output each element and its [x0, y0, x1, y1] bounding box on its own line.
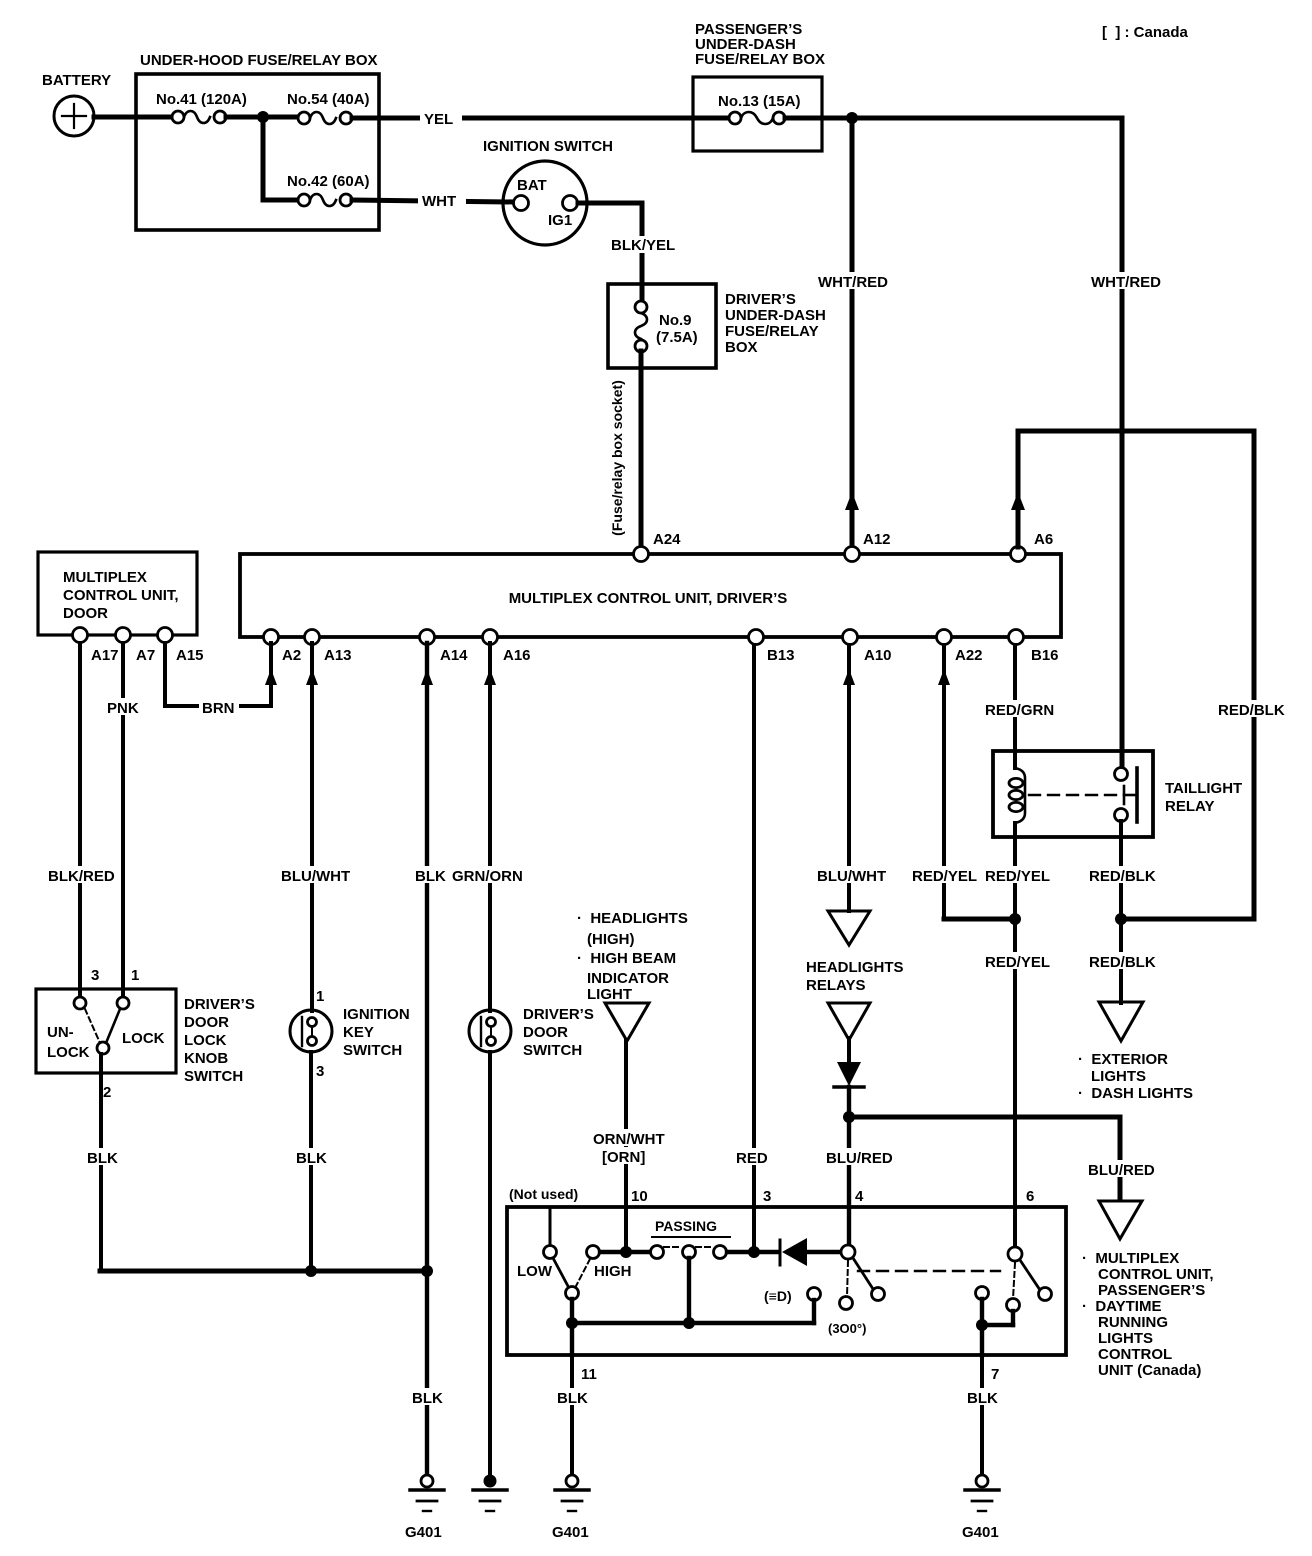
under-hood fuse/relay box — [136, 52, 379, 230]
svg-text:BRN: BRN — [202, 700, 235, 717]
svg-text:(Fuse/relay box socket): (Fuse/relay box socket) — [609, 380, 625, 536]
svg-text:3: 3 — [316, 1063, 324, 1080]
svg-text:4: 4 — [855, 1188, 864, 1205]
pin A15 — [158, 628, 204, 665]
wire BLU/RED to arrow — [1085, 1117, 1155, 1199]
taillight relay — [993, 751, 1242, 837]
wire A7 PNK — [104, 643, 142, 998]
headlight switch box — [507, 1186, 1066, 1355]
junction node pin 10 — [620, 1246, 632, 1258]
wire lock switch pin 2 BLK down — [84, 1054, 118, 1271]
svg-text:SWITCH: SWITCH — [184, 1068, 243, 1085]
driver's door lock knob switch — [36, 967, 255, 1101]
svg-text:[ ] : Canada: [ ] : Canada — [1102, 24, 1188, 41]
svg-text:A17: A17 — [91, 647, 119, 664]
svg-text:IG1: IG1 — [548, 212, 572, 229]
svg-text:ORN/WHT: ORN/WHT — [593, 1131, 665, 1148]
passing contacts — [600, 1218, 778, 1259]
svg-text:BAT: BAT — [517, 177, 547, 194]
svg-text:DOOR: DOOR — [523, 1024, 568, 1041]
dashed linkage — [858, 1270, 1000, 1272]
svg-text:A14: A14 — [440, 647, 468, 664]
junction node — [846, 112, 858, 124]
svg-text:3: 3 — [91, 967, 99, 984]
junction node in under-hood box — [257, 111, 269, 123]
junction node — [843, 1111, 855, 1123]
svg-text:LOCK: LOCK — [47, 1044, 90, 1061]
dimmer arm pin 4 — [828, 1245, 885, 1336]
svg-text:11: 11 — [581, 1366, 597, 1383]
svg-text:RED: RED — [736, 1150, 768, 1167]
svg-text:BLU/RED: BLU/RED — [826, 1150, 893, 1167]
wire pin 7 bus — [976, 1299, 1013, 1355]
svg-text:B13: B13 — [767, 647, 795, 664]
svg-text:RELAY: RELAY — [1165, 798, 1214, 815]
svg-text:A13: A13 — [324, 647, 352, 664]
ground G401 (A14/key/lock) — [405, 1475, 444, 1541]
wire pin 7 BLK to ground — [964, 1355, 1000, 1476]
pin A6 — [1011, 531, 1054, 562]
ignition key switch — [290, 988, 410, 1080]
svg-text:A6: A6 — [1034, 531, 1053, 548]
wire BLU/RED branch right — [849, 1115, 1120, 1120]
svg-text:RED/GRN: RED/GRN — [985, 702, 1054, 719]
svg-text:· HIGH BEAM: · HIGH BEAM — [577, 950, 676, 967]
pin A2 — [264, 630, 302, 665]
wire junction down to fuse No.42 — [261, 117, 266, 200]
svg-text:LIGHT: LIGHT — [587, 986, 632, 1003]
wire A15 BRN to A2 — [165, 643, 277, 717]
not used stub contact — [544, 1207, 557, 1259]
svg-text:LOCK: LOCK — [184, 1032, 227, 1049]
svg-text:(Not used): (Not used) — [509, 1186, 578, 1202]
svg-text:10: 10 — [631, 1188, 648, 1205]
wire A17 BLK/RED to door lock knob switch — [45, 643, 115, 998]
headlights high / high beam indicator note — [577, 910, 688, 1003]
arrow from headlights high — [605, 1003, 649, 1041]
svg-text:BLK: BLK — [87, 1150, 118, 1167]
svg-text:CONTROL: CONTROL — [1098, 1346, 1172, 1363]
ground (door switch, solid) — [473, 1475, 507, 1512]
arrow to multiplex control unit passenger's — [1082, 1201, 1214, 1379]
wire key switch BLK down — [293, 1052, 330, 1271]
svg-text:PNK: PNK — [107, 700, 139, 717]
junction node pin 3 — [748, 1246, 760, 1258]
svg-text:RED/BLK: RED/BLK — [1089, 868, 1156, 885]
wire IG1 BLK/YEL down to driver's under-dash fuse box — [578, 203, 676, 302]
svg-text:A2: A2 — [282, 647, 301, 664]
svg-text:(≡D): (≡D) — [764, 1288, 792, 1304]
svg-text:HEADLIGHTS: HEADLIGHTS — [806, 959, 904, 976]
wire B16 RED/GRN to taillight relay coil — [982, 645, 1054, 768]
svg-text:7: 7 — [991, 1366, 999, 1383]
svg-text:LIGHTS: LIGHTS — [1098, 1330, 1153, 1347]
battery — [42, 72, 111, 136]
svg-text:SWITCH: SWITCH — [343, 1042, 402, 1059]
svg-text:G401: G401 — [405, 1524, 442, 1541]
svg-text:RED/YEL: RED/YEL — [985, 954, 1050, 971]
svg-text:No.41 (120A): No.41 (120A) — [156, 91, 247, 108]
wire fuse/relay box socket down to A24 — [609, 351, 641, 547]
wire battery to under-hood box — [94, 115, 172, 120]
diode — [834, 1038, 864, 1087]
junction node — [305, 1265, 317, 1277]
svg-text:G401: G401 — [552, 1524, 589, 1541]
svg-text:RED/BLK: RED/BLK — [1089, 954, 1156, 971]
fuse No.42 (60A) — [287, 173, 370, 206]
svg-text:3: 3 — [763, 1188, 771, 1205]
wire relay contact RED/BLK down — [1086, 821, 1156, 1003]
junction node — [1115, 913, 1127, 925]
wire relay coil RED/YEL down to switch pin 6 — [982, 823, 1052, 1248]
svg-text:1: 1 — [316, 988, 324, 1005]
svg-text:UNDER-HOOD FUSE/RELAY BOX: UNDER-HOOD FUSE/RELAY BOX — [140, 52, 378, 69]
ground G401 (headlight switch 7) — [962, 1475, 999, 1541]
junction node — [1009, 913, 1021, 925]
pin B16 — [1009, 630, 1059, 665]
pin A22 — [937, 630, 983, 665]
svg-text:BLK: BLK — [415, 868, 446, 885]
svg-text:LOW: LOW — [517, 1263, 553, 1280]
wire door switch to ground — [488, 1052, 492, 1476]
svg-text:DRIVER’S: DRIVER’S — [725, 291, 796, 308]
svg-text:WHT/RED: WHT/RED — [1091, 274, 1161, 291]
arrow to headlights relays — [806, 911, 904, 994]
svg-text:(7.5A): (7.5A) — [656, 329, 698, 346]
wire A16 GRN/ORN to driver's door switch — [449, 643, 529, 1011]
pin B13 — [749, 630, 795, 665]
wire WHT/RED down to taillight relay — [1088, 118, 1161, 768]
svg-text:[ORN]: [ORN] — [602, 1149, 645, 1166]
svg-text:UN-: UN- — [47, 1024, 74, 1041]
svg-text:PASSENGER’S: PASSENGER’S — [1098, 1282, 1205, 1299]
svg-text:CONTROL UNIT,: CONTROL UNIT, — [63, 587, 179, 604]
svg-text:BOX: BOX — [725, 339, 758, 356]
fuse No.9 (7.5A) — [635, 301, 698, 352]
wire A13 BLU/WHT to ignition key switch — [278, 643, 350, 1011]
svg-text:No.13 (15A): No.13 (15A) — [718, 93, 801, 110]
passenger's under-dash fuse/relay box — [693, 21, 825, 151]
svg-text:A16: A16 — [503, 647, 531, 664]
svg-text:BLK/YEL: BLK/YEL — [611, 237, 675, 254]
svg-text:FUSE/RELAY BOX: FUSE/RELAY BOX — [695, 51, 825, 68]
wire WHT/RED main run right — [785, 116, 1122, 121]
driver's door switch — [469, 1006, 594, 1059]
svg-text:FUSE/RELAY: FUSE/RELAY — [725, 323, 819, 340]
multiplex control unit, door box — [38, 552, 197, 635]
svg-text:DRIVER’S: DRIVER’S — [523, 1006, 594, 1023]
multiplex control unit, driver's box — [240, 554, 1061, 637]
fuse No.54 (40A) — [287, 91, 370, 124]
svg-text:BLK: BLK — [412, 1390, 443, 1407]
svg-text:HIGH: HIGH — [594, 1263, 632, 1280]
arrow to exterior lights — [1078, 1002, 1193, 1102]
fuse No.41 (120A) — [156, 91, 298, 123]
svg-text:BLU/RED: BLU/RED — [1088, 1162, 1155, 1179]
pin A10 — [843, 630, 892, 665]
svg-text:MULTIPLEX CONTROL UNIT, DRIVER: MULTIPLEX CONTROL UNIT, DRIVER’S — [509, 590, 788, 607]
svg-text:KNOB: KNOB — [184, 1050, 228, 1067]
pin A13 — [305, 630, 352, 665]
diode in switch — [780, 1238, 841, 1266]
svg-text:MULTIPLEX: MULTIPLEX — [63, 569, 147, 586]
ground G401 (headlight switch 11) — [552, 1475, 589, 1541]
fuse No.13 (15A) — [718, 93, 801, 124]
pin A14 — [420, 630, 469, 665]
svg-text:RELAYS: RELAYS — [806, 977, 865, 994]
svg-text:BLU/WHT: BLU/WHT — [817, 868, 886, 885]
svg-text:RED/YEL: RED/YEL — [912, 868, 977, 885]
svg-text:1: 1 — [131, 967, 139, 984]
low/high dimmer switch — [517, 1246, 632, 1300]
svg-text:UNDER-DASH: UNDER-DASH — [725, 307, 826, 324]
svg-text:BLK: BLK — [557, 1390, 588, 1407]
dimmer arm pin 6 — [976, 1247, 1052, 1312]
svg-text:YEL: YEL — [424, 111, 453, 128]
svg-text:B16: B16 — [1031, 647, 1059, 664]
svg-text:2: 2 — [103, 1084, 111, 1101]
svg-text:BATTERY: BATTERY — [42, 72, 111, 89]
svg-text:(3O0°): (3O0°) — [828, 1321, 866, 1336]
svg-text:IGNITION: IGNITION — [343, 1006, 410, 1023]
svg-text:DOOR: DOOR — [184, 1014, 229, 1031]
pin A16 — [483, 630, 531, 665]
wire A6 RED/BLK loop — [1011, 431, 1287, 919]
svg-text:G401: G401 — [962, 1524, 999, 1541]
svg-text:GRN/ORN: GRN/ORN — [452, 868, 523, 885]
svg-text:TAILLIGHT: TAILLIGHT — [1165, 780, 1242, 797]
svg-text:· HEADLIGHTS: · HEADLIGHTS — [577, 910, 688, 927]
svg-text:WHT/RED: WHT/RED — [818, 274, 888, 291]
svg-text:RUNNING: RUNNING — [1098, 1314, 1168, 1331]
svg-text:RED/YEL: RED/YEL — [985, 868, 1050, 885]
svg-text:(HIGH): (HIGH) — [587, 931, 635, 948]
driver's under-dash fuse/relay box (No.9) — [608, 284, 826, 368]
pin A17 — [73, 628, 119, 665]
svg-text:DRIVER’S: DRIVER’S — [184, 996, 255, 1013]
svg-text:No.42 (60A): No.42 (60A) — [287, 173, 370, 190]
wire WHT to ignition switch — [352, 188, 514, 210]
svg-text:CONTROL UNIT,: CONTROL UNIT, — [1098, 1266, 1214, 1283]
svg-text:A24: A24 — [653, 531, 681, 548]
wire ORN/WHT to switch pin 10 — [590, 1041, 665, 1252]
svg-text:No.9: No.9 — [659, 312, 692, 329]
svg-text:RED/BLK: RED/BLK — [1218, 702, 1285, 719]
svg-text:WHT: WHT — [422, 193, 456, 210]
svg-text:A15: A15 — [176, 647, 204, 664]
svg-text:6: 6 — [1026, 1188, 1034, 1205]
svg-text:LOCK: LOCK — [122, 1030, 165, 1047]
svg-text:· MULTIPLEX: · MULTIPLEX — [1082, 1250, 1179, 1267]
svg-text:· DAYTIME: · DAYTIME — [1082, 1298, 1161, 1315]
svg-text:SWITCH: SWITCH — [523, 1042, 582, 1059]
svg-text:LIGHTS: LIGHTS — [1091, 1068, 1146, 1085]
pin A24 — [634, 531, 682, 562]
svg-text:UNIT (Canada): UNIT (Canada) — [1098, 1362, 1201, 1379]
arrow from headlights relays — [828, 1003, 870, 1040]
wire pin 11 BLK to ground — [554, 1355, 597, 1476]
pin A7 — [116, 628, 156, 665]
svg-text:· DASH LIGHTS: · DASH LIGHTS — [1078, 1085, 1193, 1102]
svg-text:A10: A10 — [864, 647, 892, 664]
switch common bus — [566, 1258, 814, 1355]
wire ground bus horizontal — [100, 1269, 427, 1274]
junction node — [421, 1265, 433, 1277]
svg-text:INDICATOR: INDICATOR — [587, 970, 669, 987]
wire YEL to passenger fuse box — [352, 105, 729, 128]
svg-text:BLU/WHT: BLU/WHT — [281, 868, 350, 885]
svg-text:BLK: BLK — [296, 1150, 327, 1167]
svg-text:A7: A7 — [136, 647, 155, 664]
svg-text:BLK: BLK — [967, 1390, 998, 1407]
svg-text:No.54 (40A): No.54 (40A) — [287, 91, 370, 108]
wire WHT/RED down to A12 — [815, 118, 888, 547]
wire A10 BLU/WHT down — [814, 645, 886, 911]
wire A14 BLK down to ground — [409, 643, 446, 1476]
passing lamp contact — [764, 1288, 821, 1324]
svg-text:DOOR: DOOR — [63, 605, 108, 622]
svg-text:A12: A12 — [863, 531, 891, 548]
ignition switch — [483, 138, 613, 245]
wire BLU/RED diode to switch pin 4 — [823, 1087, 893, 1246]
svg-text:KEY: KEY — [343, 1024, 374, 1041]
wire A22 RED/YEL — [909, 645, 1015, 919]
wire B13 RED to headlight switch pin 3 — [733, 645, 771, 1252]
svg-text:BLK/RED: BLK/RED — [48, 868, 115, 885]
svg-text:· EXTERIOR: · EXTERIOR — [1078, 1051, 1168, 1068]
pin A12 — [845, 531, 891, 562]
svg-text:PASSING: PASSING — [655, 1218, 717, 1234]
svg-text:IGNITION SWITCH: IGNITION SWITCH — [483, 138, 613, 155]
svg-text:A22: A22 — [955, 647, 983, 664]
